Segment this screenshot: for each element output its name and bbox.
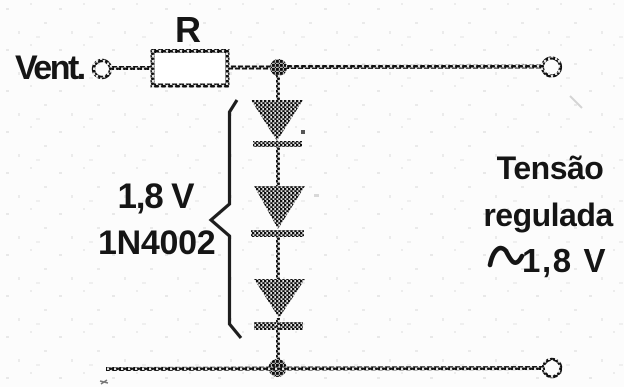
wire: D3 to node B [276, 318, 280, 360]
node B (bottom junction dot) [269, 359, 287, 377]
bottom-right terminal (open circle) [543, 359, 560, 376]
input terminal (open circle, left) [94, 61, 111, 78]
faint scan mark top right [570, 96, 582, 108]
scan speck near D1 [301, 130, 305, 134]
AC tilde symbol before 1,8 V [490, 248, 522, 265]
label 1,8 V (right text line 3) [522, 242, 607, 279]
wire: input terminal to resistor R [110, 66, 153, 70]
wire: node A down to diode D1 [276, 75, 280, 101]
wire: D2 to D3 [276, 237, 280, 280]
label 1N4002 [98, 224, 215, 262]
svg-text:R: R [175, 9, 201, 50]
wire: resistor R to node A [228, 66, 272, 70]
brace { grouping the three diodes [211, 100, 241, 338]
svg-text:Vent.: Vent. [15, 49, 85, 87]
label 1,8 V (left) [118, 177, 196, 216]
scan smudge bottom left [100, 380, 108, 384]
diode D1 (anode triangle) [251, 100, 303, 141]
svg-text:Tensão: Tensão [497, 150, 604, 186]
diode D1 cathode bar [253, 141, 302, 147]
svg-text:1,8 V: 1,8 V [522, 242, 607, 279]
svg-text:regulada: regulada [483, 197, 613, 233]
diode D3 (anode triangle) [254, 279, 305, 318]
label regulada (right text line 2) [483, 197, 613, 233]
faint scan mark right of D2 [314, 194, 319, 197]
diode D3 cathode bar [254, 322, 303, 330]
svg-text:1N4002: 1N4002 [98, 224, 215, 262]
label R [175, 9, 201, 50]
diode D2 (anode triangle) [254, 186, 305, 229]
output terminal (open circle, top right) [543, 58, 561, 76]
bottom wire (node B rail) [106, 368, 543, 369]
label Vent. [15, 49, 85, 87]
svg-text:1,8 V: 1,8 V [118, 177, 196, 216]
resistor R (body) [153, 51, 228, 86]
label Tensão (right text line 1) [497, 150, 604, 186]
diode D2 cathode bar [251, 230, 304, 237]
wire: node A to output terminal [286, 65, 543, 70]
node A (top junction dot) [270, 59, 287, 76]
wire: D1 to D2 [276, 147, 280, 187]
